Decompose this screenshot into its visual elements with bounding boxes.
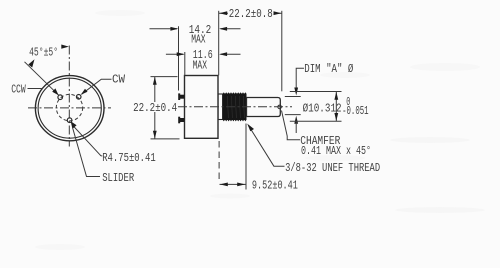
arrowhead on 45 deg line near label (28, 59, 34, 67)
svg-text:MAX: MAX (191, 32, 205, 46)
extension line thread end (below) (245, 124, 247, 190)
CW leader (82, 79, 112, 94)
side view body (185, 76, 219, 139)
dimension 22.2+-0.8 (219, 7, 282, 21)
extension line mounting face (218, 11, 220, 76)
side view terminal top bar (180, 95, 185, 99)
svg-text:SLIDER: SLIDER (102, 171, 134, 185)
vertical centerline of front view (68, 46, 70, 147)
side view terminal top lug (178, 93, 180, 100)
svg-text:45°±5°: 45°±5° (29, 46, 58, 60)
extension line body face (dashed, below) (218, 141, 220, 183)
extension line terminals (14.2) (178, 26, 180, 90)
dimension 9.52+-0.41 (220, 178, 298, 192)
shaft (247, 98, 281, 117)
threaded bushing (dark block) (223, 92, 247, 121)
arrowhead at thread (247, 124, 254, 132)
horizontal centerline of side view (178, 106, 292, 108)
dimension 11.6 MAX (166, 48, 241, 73)
arrowhead R4.75 at bolt circle (71, 121, 77, 129)
thread leader (249, 126, 285, 167)
chamfer leader (282, 111, 301, 140)
svg-text:3/8-32 UNEF THREAD: 3/8-32 UNEF THREAD (285, 161, 380, 175)
slider leader (73, 129, 100, 177)
svg-text:9.52±0.41: 9.52±0.41 (252, 178, 298, 192)
svg-text:-0.051: -0.051 (342, 104, 369, 118)
dimension dia 10.312 (290, 92, 369, 122)
dimension 14.2 MAX (150, 23, 241, 46)
side view terminal bottom lug (178, 117, 180, 124)
shaft tip circle (278, 105, 282, 109)
bolt circle (dashed) (56, 94, 82, 120)
extension line body left (11.6) (184, 52, 186, 76)
boss plate (218, 94, 222, 120)
svg-text:22.2±0.4: 22.2±0.4 (133, 101, 177, 115)
arrow at vertical centerline for 45 deg dim (61, 45, 69, 49)
terminal 3 (CW, upper-right) (76, 95, 81, 100)
extension line shaft end (281, 11, 283, 92)
horizontal centerline of front view (28, 107, 111, 109)
45 degree leader line (25, 62, 59, 96)
CCW leader (28, 88, 43, 90)
dimension 22.2+-0.4 (133, 77, 180, 139)
svg-text:R4.75±0.41: R4.75±0.41 (102, 151, 156, 165)
side view terminal bottom bar (180, 118, 185, 122)
terminal 2 (slider, bottom) (67, 118, 72, 123)
svg-text:MAX: MAX (193, 58, 207, 72)
arrowhead at terminal 3 (81, 89, 88, 95)
svg-text:CCW: CCW (11, 82, 26, 96)
svg-text:Ø10.312: Ø10.312 (303, 102, 342, 116)
DIM A leader (285, 62, 354, 133)
terminal 1 (CCW, upper-left) (58, 95, 63, 100)
R4.75 leader (74, 126, 103, 156)
svg-text:CW: CW (112, 73, 126, 87)
svg-text:22.2±0.8: 22.2±0.8 (229, 7, 273, 21)
arrowhead at terminal 1 (52, 88, 58, 95)
front view outer circle (35, 76, 104, 141)
front view inner circle (38, 78, 101, 138)
